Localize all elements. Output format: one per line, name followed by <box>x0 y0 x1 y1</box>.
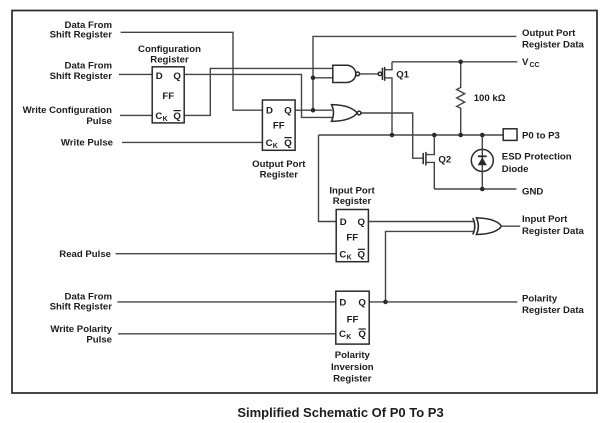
svg-text:K: K <box>346 334 351 341</box>
svg-text:D: D <box>156 71 163 82</box>
svg-text:Data From: Data From <box>65 60 112 71</box>
svg-text:Simplified Schematic Of P0 To: Simplified Schematic Of P0 To P3 <box>237 405 443 420</box>
svg-text:Q1: Q1 <box>396 70 409 81</box>
svg-text:K: K <box>347 255 352 262</box>
svg-text:Q: Q <box>173 71 181 82</box>
svg-text:Configuration: Configuration <box>138 44 201 55</box>
svg-text:Register Data: Register Data <box>522 40 585 51</box>
svg-text:Pulse: Pulse <box>86 334 112 345</box>
svg-text:Diode: Diode <box>502 164 529 175</box>
svg-text:Q: Q <box>173 111 181 122</box>
svg-text:D: D <box>266 106 273 117</box>
svg-text:100 kΩ: 100 kΩ <box>474 93 506 104</box>
svg-text:Register: Register <box>260 170 299 181</box>
svg-text:Register: Register <box>333 373 372 384</box>
svg-text:K: K <box>163 116 168 123</box>
svg-text:Read Pulse: Read Pulse <box>59 249 111 260</box>
svg-text:Write Pulse: Write Pulse <box>61 138 113 149</box>
svg-text:Polarity: Polarity <box>335 350 371 361</box>
svg-text:Register Data: Register Data <box>522 226 585 237</box>
svg-text:Polarity: Polarity <box>522 293 558 304</box>
svg-text:Register: Register <box>333 196 372 207</box>
svg-text:C: C <box>339 250 346 261</box>
svg-text:Q: Q <box>358 217 366 228</box>
svg-text:K: K <box>273 143 278 150</box>
svg-text:Input Port: Input Port <box>329 186 375 197</box>
svg-text:FF: FF <box>162 91 174 102</box>
svg-text:Q: Q <box>358 329 366 340</box>
svg-text:FF: FF <box>346 232 358 243</box>
svg-text:C: C <box>339 329 346 340</box>
svg-text:Register Data: Register Data <box>522 305 585 316</box>
svg-text:CC: CC <box>530 62 540 69</box>
svg-text:Output Port: Output Port <box>522 28 576 39</box>
svg-text:Q: Q <box>358 297 366 308</box>
svg-text:Register: Register <box>150 54 189 65</box>
svg-text:FF: FF <box>347 315 359 326</box>
svg-text:Q2: Q2 <box>438 155 451 166</box>
svg-text:ESD Protection: ESD Protection <box>502 151 572 162</box>
svg-text:Q: Q <box>284 138 292 149</box>
svg-text:Q: Q <box>358 250 366 261</box>
svg-text:Output Port: Output Port <box>252 159 306 170</box>
svg-text:P0 to P3: P0 to P3 <box>522 131 560 142</box>
svg-text:D: D <box>340 217 347 228</box>
svg-text:Shift Register: Shift Register <box>50 30 113 41</box>
svg-text:V: V <box>522 57 529 68</box>
svg-text:Pulse: Pulse <box>86 116 112 127</box>
svg-text:Input Port: Input Port <box>522 214 568 225</box>
svg-text:C: C <box>266 138 273 149</box>
svg-text:Shift Register: Shift Register <box>50 302 113 313</box>
svg-text:FF: FF <box>273 121 285 132</box>
svg-text:C: C <box>155 111 162 122</box>
svg-text:Write Configuration: Write Configuration <box>23 105 112 116</box>
svg-text:D: D <box>339 297 346 308</box>
svg-text:Shift Register: Shift Register <box>50 71 113 82</box>
svg-text:GND: GND <box>522 187 543 198</box>
svg-text:Q: Q <box>284 106 292 117</box>
svg-text:Inversion: Inversion <box>331 362 374 373</box>
